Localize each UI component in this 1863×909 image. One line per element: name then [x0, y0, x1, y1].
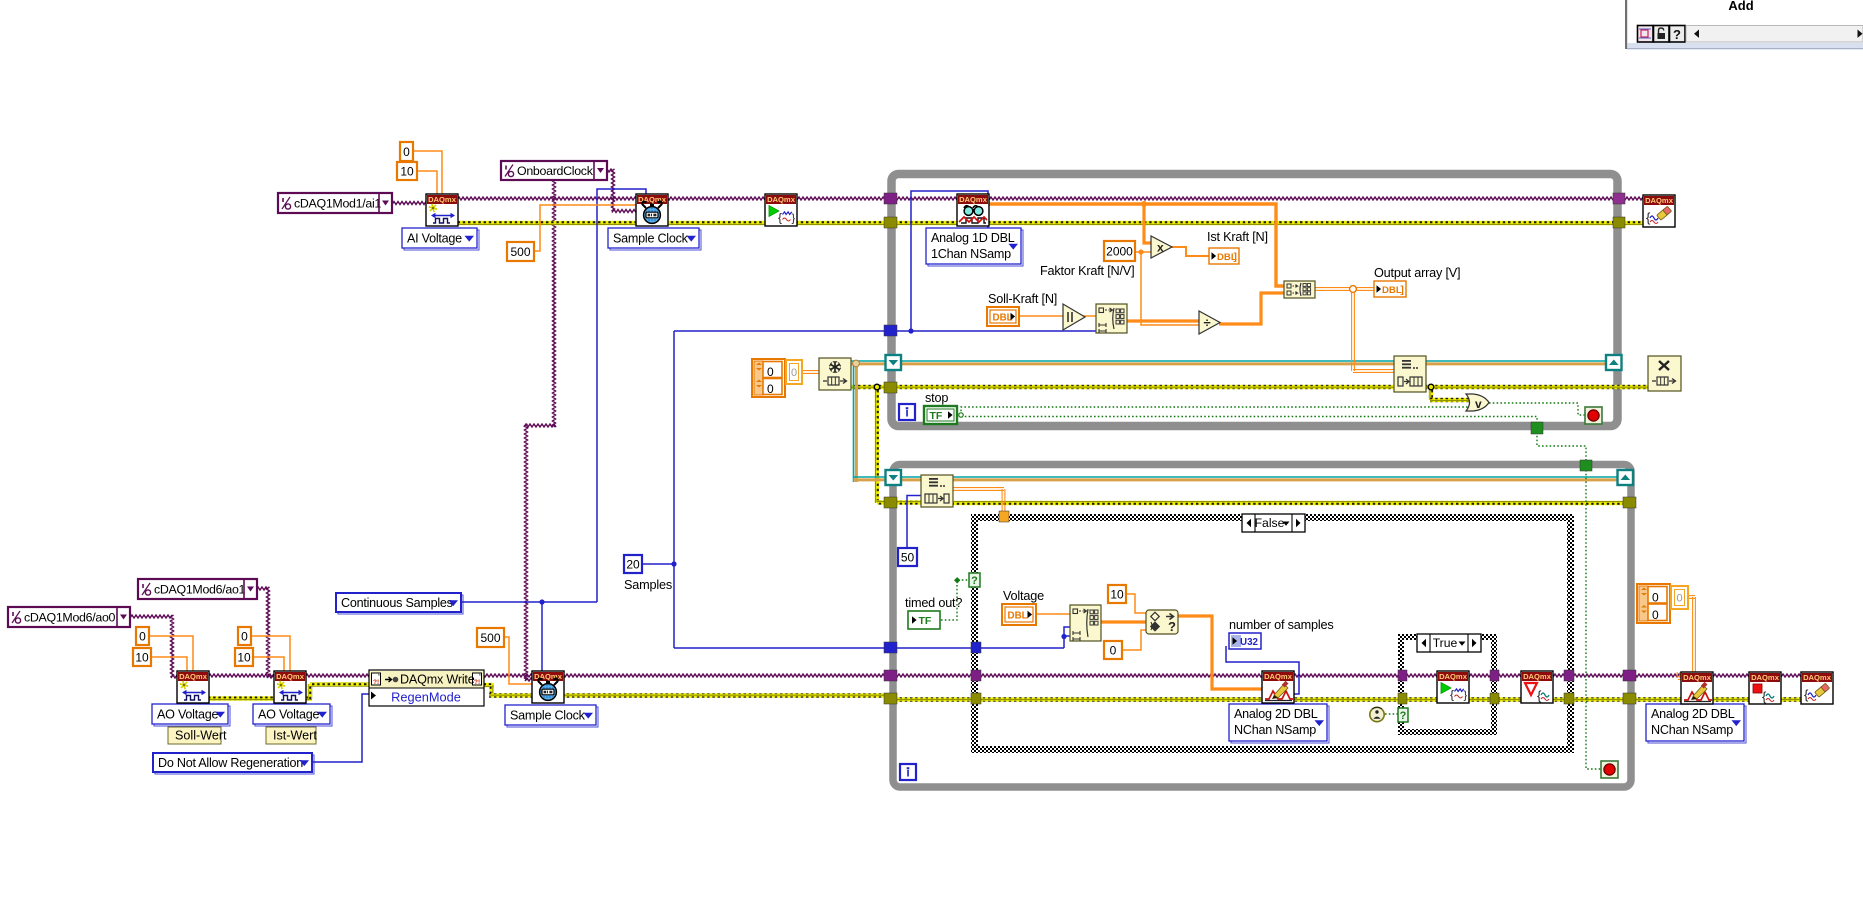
wire: read data branch to multiply — [1144, 204, 1152, 243]
indicator number of samples U32 — [1229, 633, 1261, 649]
svg-text:0: 0 — [767, 382, 774, 396]
wire: AI error cluster (yellow-black) — [457, 221, 1644, 225]
ring constant Sample Clock (AO) — [507, 707, 598, 727]
numeric constant 10 (case high limit) — [1108, 585, 1126, 603]
indicator timed out? TF — [908, 611, 940, 629]
svg-text:0: 0 — [1652, 591, 1659, 605]
svg-text:DAQmx: DAQmx — [1523, 672, 1552, 681]
svg-text:Soll-Kraft [N]: Soll-Kraft [N] — [988, 292, 1057, 306]
DAQmx Write property node RegenMode — [369, 670, 484, 706]
while loop 2 (generation loop) border — [893, 465, 1631, 788]
wire: queue refnum inside loop1 to enqueue and right shift register — [899, 360, 1620, 362]
tunnel: AO error into loop2 — [884, 693, 897, 704]
wire: queue refnum inside loop2 through dequeue — [899, 476, 1620, 478]
shift register loop2 left — [886, 470, 902, 485]
wire: obtain-queue error out to loop1 enqueue / release queue — [850, 385, 1652, 389]
tunnel: obtain-queue error into loop1 — [884, 382, 897, 393]
svg-text:}: } — [1464, 690, 1468, 702]
wire: initialize array out to select — [1100, 620, 1147, 623]
svg-text:10: 10 — [237, 650, 251, 664]
svg-text:Analog 2D DBL: Analog 2D DBL — [1651, 707, 1735, 721]
svg-text:?: ? — [971, 575, 978, 587]
svg-text:0: 0 — [1676, 593, 1682, 605]
svg-text:Sample Clock: Sample Clock — [510, 709, 586, 723]
numeric constant 10 (ao1) — [235, 648, 253, 666]
wire: AI physical channel to DAQmx Create Channel (purple) — [392, 202, 426, 205]
svg-text:Add: Add — [1728, 0, 1753, 13]
numeric constant 500 (AI rate) — [507, 242, 534, 261]
control Voltage DBL — [1002, 604, 1036, 625]
convert/units triangle (Soll-Kraft) — [1063, 304, 1085, 330]
svg-text:20: 20 — [626, 557, 640, 571]
tunnel: AO error out of loop2 — [1623, 693, 1636, 704]
element box of array constant 2 — [1671, 586, 1688, 609]
wire: First Call? to inner case selector — [1385, 713, 1399, 715]
tunnel: AI task into loop1 — [884, 193, 897, 204]
wire: error status branch into OR gate — [1429, 387, 1433, 400]
tunnel: samples count into loop1 — [884, 325, 897, 336]
loop2 iteration terminal — [900, 764, 916, 780]
wire: AO error cluster property node -> AO timing -> loop2 — [483, 683, 494, 687]
element box of array constant — [786, 360, 802, 384]
svg-text:?: ? — [1400, 710, 1407, 722]
wire: build array out 2D array to Output array indicator and enqueue — [1315, 287, 1374, 289]
svg-text:50: 50 — [901, 550, 915, 564]
shift register loop1 left — [886, 355, 902, 370]
DAQmx Timing (AO sample clock) — [532, 671, 564, 703]
inner case selector terminal ? — [1398, 708, 1408, 722]
ring constant Do Not Allow Regeneration — [155, 755, 314, 774]
wire: AO ch0 constants 0/10 — [149, 636, 193, 672]
wire: stop boolean from stop control to OR gate and loop2 (green dotted) — [952, 414, 961, 416]
svg-text:0: 0 — [1652, 608, 1659, 622]
svg-text:timed out?: timed out? — [905, 596, 962, 610]
inner case structure (True case) border — [1398, 634, 1497, 640]
shift register loop2 right — [1618, 470, 1634, 485]
wire: constant 500 to AI sample clock rate — [533, 205, 637, 251]
loop2 conditional terminal (stop sign) — [1601, 761, 1618, 778]
svg-text:NChan NSamp: NChan NSamp — [1234, 723, 1316, 737]
free label Soll-Wert — [168, 727, 221, 744]
svg-text:Analog 1D DBL: Analog 1D DBL — [931, 231, 1015, 245]
wire: number of samples written (blue) from DAQmx Write to U32 indicator — [1226, 646, 1299, 694]
svg-text:?!: ?! — [474, 679, 480, 686]
ring constant Continuous Samples — [338, 595, 463, 614]
In Range and Coerce / select — [1146, 610, 1178, 634]
wire: AO error cluster create1->create2->property node — [208, 696, 312, 700]
svg-text:OnboardClock: OnboardClock — [517, 164, 594, 178]
wire: dequeue element out to case tunnel — [952, 487, 1004, 489]
tunnel: samples count into loop2 — [884, 642, 897, 653]
svg-text:Ist-Wert: Ist-Wert — [273, 729, 317, 743]
control stop TF — [924, 406, 957, 424]
wire: Continuous Samples (blue) to AI and AO timing sample-mode inputs — [461, 601, 597, 603]
junction: error wire dots — [874, 384, 880, 390]
tunnel: AO task out of case — [1564, 670, 1574, 681]
svg-text:0: 0 — [241, 629, 248, 643]
junction: queue wire branch dot — [853, 360, 860, 367]
I/O constant cDAQ1Mod1/ai1 — [278, 193, 392, 213]
svg-text:DAQmx: DAQmx — [1439, 672, 1468, 681]
DAQmx Start Task (AI) — [765, 194, 797, 226]
svg-text:0: 0 — [1110, 643, 1117, 657]
svg-text:}: } — [792, 213, 796, 225]
tunnel: AO error inner case left — [1398, 693, 1407, 704]
context help window fragment (top right) — [1627, 0, 1863, 43]
svg-text:cDAQ1Mod1/ai1: cDAQ1Mod1/ai1 — [294, 197, 381, 211]
numeric constant 2000 Faktor Kraft — [1104, 241, 1135, 261]
wire: AO task (purple) through create channels, write node, loop 2, case, DAQmx write/start/stop/clear — [208, 674, 274, 677]
svg-text:TF: TF — [930, 410, 943, 422]
while loop 1 (acquisition loop) border — [892, 174, 1618, 426]
I/O constant cDAQ1Mod6/ao0 — [8, 607, 130, 627]
ring constant AO Voltage 2 — [255, 706, 332, 726]
svg-text:500: 500 — [510, 245, 530, 259]
svg-text:DAQmx: DAQmx — [179, 672, 208, 681]
wire: AO error cluster inside loop2 through case and DAQmx write/start/stop to clear — [889, 697, 1832, 701]
svg-text:DAQmx: DAQmx — [767, 195, 796, 204]
inner case selector label True — [1417, 634, 1481, 652]
tunnel: AI error out of loop1 — [1613, 217, 1625, 228]
case selector terminal ? — [969, 573, 980, 587]
wire: stop boolean below loop1 to loop2 tunnel — [1537, 432, 1586, 462]
svg-text:DAQmx: DAQmx — [1751, 673, 1780, 682]
wire: stop boolean inside loop2 to loop condition — [1586, 470, 1601, 769]
DAQmx Timing (AI sample clock) — [636, 194, 668, 226]
wire: divide out to build array — [1219, 293, 1285, 324]
svg-text:500: 500 — [480, 631, 500, 645]
wire: OnboardClock out — [605, 169, 613, 172]
tunnel: AO task inner case left — [1398, 670, 1407, 681]
wire: constant 500 to AO sample clock rate — [503, 637, 534, 684]
Build Array — [1284, 281, 1315, 298]
polymorphic selector Analog 1D DBL 1Chan NSamp — [928, 230, 1023, 266]
svg-text:AI Voltage: AI Voltage — [407, 232, 462, 246]
svg-text:x: x — [1157, 241, 1164, 255]
wire: constant 10 to AI create channel — [417, 171, 437, 195]
svg-text:cDAQ1Mod6/ao1: cDAQ1Mod6/ao1 — [154, 583, 246, 597]
svg-text:2000: 2000 — [1106, 244, 1133, 258]
polymorphic selector Analog 2D DBL NChan NSamp (right) — [1648, 706, 1746, 743]
tunnel: stop boolean out of loop1 bottom — [1531, 422, 1543, 434]
context help scrollbar — [1686, 26, 1863, 43]
wire: OnboardClock to AO sample clock (purple, long vertical) — [553, 179, 556, 427]
wire: constant 0 to select (loop2 case) — [1122, 630, 1147, 650]
svg-text:stop: stop — [925, 391, 948, 405]
svg-text:1Chan NSamp: 1Chan NSamp — [931, 247, 1011, 261]
context help toolbar button 1 — [1638, 26, 1654, 43]
tunnel: AO task into loop2 — [884, 670, 897, 681]
Dequeue Element — [921, 475, 953, 507]
svg-text:{: { — [1450, 688, 1454, 702]
DAQmx Stop Task (after inner case) — [1521, 671, 1553, 703]
svg-text:{: { — [778, 211, 782, 225]
svg-text:Faktor Kraft [N/V]: Faktor Kraft [N/V] — [1040, 264, 1134, 278]
svg-text:?: ? — [1673, 27, 1681, 42]
svg-text:True: True — [1433, 636, 1458, 650]
svg-text:U32: U32 — [1240, 637, 1259, 648]
svg-text:False: False — [1255, 516, 1285, 530]
I/O constant OnboardClock — [501, 161, 607, 180]
svg-text:Output array [V]: Output array [V] — [1374, 266, 1460, 280]
First Call? — [1370, 707, 1384, 721]
junction: stop boolean dot — [959, 413, 963, 417]
Release Queue — [1648, 356, 1681, 391]
numeric constant 10 (AI range) — [397, 162, 417, 180]
svg-text:RegenMode: RegenMode — [391, 690, 461, 705]
svg-text:TF: TF — [919, 615, 932, 627]
wire: Soll-Kraft to converter and initialize array — [1019, 315, 1064, 317]
svg-text:DAQmx: DAQmx — [959, 195, 988, 204]
svg-text:cDAQ1Mod6/ao0: cDAQ1Mod6/ao0 — [24, 611, 116, 625]
svg-text:Analog 2D DBL: Analog 2D DBL — [1234, 707, 1318, 721]
svg-text:10: 10 — [1110, 587, 1124, 601]
DAQmx Clear Task (right) — [1801, 672, 1833, 704]
wire: queue refnum branch down to loop2 — [853, 363, 855, 482]
svg-text:Soll-Wert: Soll-Wert — [175, 729, 227, 743]
svg-text:DAQmx: DAQmx — [276, 672, 305, 681]
control Soll-Kraft [N] DBL — [987, 307, 1019, 326]
Enqueue Element — [1394, 356, 1426, 392]
svg-text:DAQmx: DAQmx — [1264, 672, 1293, 681]
wire: Voltage control to initialize array (loop2) — [1034, 613, 1071, 615]
numeric constant 10 (ao0) — [133, 648, 151, 666]
ring constant AI Voltage — [404, 230, 479, 250]
DAQmx Read — [957, 194, 989, 226]
DAQmx Create Virtual Channel (AO ch0) — [177, 671, 209, 703]
wire: constant 0 to AI create channel — [413, 151, 442, 195]
tunnel: AO task inner case right — [1490, 670, 1499, 681]
svg-text:]: ] — [1234, 252, 1237, 263]
DAQmx Create Virtual Channel (AI) — [426, 194, 458, 226]
svg-text:v: v — [1475, 397, 1482, 411]
numeric constant 50 timeout (blue) — [898, 548, 917, 566]
svg-text:Sample Clock: Sample Clock — [613, 232, 689, 246]
Initialize Array (loop2 case) — [1070, 605, 1101, 641]
wire: constant 2000 to multiply and divide — [1134, 251, 1152, 253]
svg-text:{: { — [1537, 688, 1542, 703]
wire: array constant 2 to DAQmx Write (right) — [1692, 597, 1694, 678]
wire: select out to DAQmx Write data input — [1177, 616, 1263, 689]
wire: queue refnum obtain->loop1 shift register — [850, 360, 890, 362]
ring constant AO Voltage 1 — [154, 706, 230, 726]
numeric constant 0 (AI range) — [400, 142, 413, 161]
DAQmx Stop Task (right) — [1749, 672, 1781, 704]
svg-text:Voltage: Voltage — [1003, 589, 1044, 603]
I/O constant cDAQ1Mod6/ao1 — [138, 579, 257, 599]
tunnel: AO error inner case right — [1490, 693, 1499, 704]
tunnel: AO error into case — [971, 693, 981, 704]
svg-text:DBL: DBL — [1008, 611, 1028, 622]
svg-text:DBL: DBL — [1382, 285, 1402, 296]
array constant 2 (write default data) — [1637, 584, 1670, 623]
wire: multiply out to Ist Kraft indicator — [1172, 247, 1209, 256]
wire: initialize array out to divide — [1125, 319, 1200, 322]
svg-text:]: ] — [1401, 285, 1404, 296]
loop1 conditional terminal (stop sign) — [1585, 407, 1602, 424]
OR gate — [1466, 394, 1489, 411]
tunnel: dequeue element into case top — [999, 511, 1009, 522]
Obtain Queue — [819, 358, 851, 390]
svg-text:DAQmx: DAQmx — [1803, 673, 1832, 682]
wire: 50 timeout (blue) to dequeue — [907, 496, 922, 550]
case selector label False — [1242, 514, 1305, 532]
multiply function — [1151, 236, 1172, 258]
numeric constant 500 (AO rate) — [477, 628, 504, 647]
array constant (queue element prototype) — [752, 359, 785, 397]
svg-text:DAQmx: DAQmx — [428, 195, 457, 204]
svg-text:÷: ÷ — [1204, 315, 1211, 330]
wire: constant 10 to select (loop2 case) — [1126, 594, 1147, 613]
ring constant Sample Clock (AI) — [610, 230, 701, 250]
shift register loop1 right — [1606, 355, 1622, 370]
tunnel: AI error into loop1 — [884, 217, 897, 228]
tunnel: dequeue error into loop2 — [884, 497, 897, 508]
DAQmx Write (right of loop2) — [1681, 672, 1713, 704]
loop1 iteration terminal — [899, 404, 915, 420]
context help toolbar button 3 (?) — [1670, 26, 1686, 43]
numeric constant 20 Samples (blue) — [624, 555, 642, 573]
svg-text:AO Voltage: AO Voltage — [157, 708, 218, 722]
tunnel: dequeue error out of loop2 — [1623, 497, 1636, 508]
tunnel: AO error out of case — [1564, 693, 1574, 704]
wire: AO ch1 constants 0/10 — [251, 636, 290, 672]
svg-text:number of samples: number of samples — [1229, 618, 1334, 632]
case structure (False case) border — [971, 514, 1574, 521]
numeric constant 0 (ao1) — [238, 627, 251, 645]
svg-text:Ist Kraft [N]: Ist Kraft [N] — [1207, 230, 1268, 244]
polymorphic selector Analog 2D DBL NChan NSamp (case) — [1231, 706, 1329, 743]
wire: AO physical channel ao0 (purple) — [130, 615, 172, 618]
free label Ist-Wert — [266, 727, 316, 744]
svg-text:{: { — [1762, 689, 1767, 704]
svg-text:AO Voltage: AO Voltage — [258, 708, 319, 722]
DAQmx Clear Task (AI) — [1643, 195, 1675, 227]
svg-text:10: 10 — [135, 650, 149, 664]
wire: read data (1D array, thick orange) — [988, 204, 1285, 286]
DAQmx Start Task (inner case) — [1437, 671, 1469, 703]
svg-text:DAQmx Write: DAQmx Write — [400, 673, 475, 687]
wire: dequeue timed-out to indicator and case selector — [941, 580, 969, 620]
wire: error branch down to loop2 dequeue — [875, 387, 879, 503]
svg-text:Do Not Allow Regeneration: Do Not Allow Regeneration — [158, 756, 303, 770]
DAQmx Write (in case) — [1262, 671, 1294, 703]
svg-text:10: 10 — [400, 164, 414, 178]
svg-text:DBL: DBL — [993, 313, 1013, 324]
numeric constant 0 (case low limit) — [1104, 641, 1122, 659]
tunnel: AO task into case — [971, 670, 981, 681]
indicator Ist Kraft [N] DBL — [1209, 248, 1239, 264]
indicator Output array [V] DBL — [1374, 281, 1406, 297]
svg-text:0: 0 — [139, 629, 146, 643]
tunnel: AI task out of loop1 — [1613, 193, 1625, 204]
svg-text:0: 0 — [791, 367, 797, 379]
svg-text:NChan NSamp: NChan NSamp — [1651, 723, 1733, 737]
svg-text:0: 0 — [767, 365, 774, 379]
numeric constant 0 (ao0) — [136, 627, 149, 645]
Initialize Array (loop1) — [1096, 304, 1127, 333]
wire: OR gate output to loop1 condition terminal — [1489, 403, 1586, 415]
wire: 20 Samples (blue) to loop1, read count and initialize-array — [641, 563, 674, 565]
svg-text:DAQmx: DAQmx — [1683, 673, 1712, 682]
wire: dequeue error out to loop2 edge — [952, 501, 1632, 505]
wire: 20 Samples to loop2 initialize-array — [674, 647, 1064, 649]
wire: Do Not Allow Regeneration (blue) to RegenMode property — [312, 694, 370, 762]
svg-text:DAQmx: DAQmx — [1645, 196, 1674, 205]
svg-text:Samples: Samples — [624, 578, 672, 592]
tunnel: AO task out of loop2 — [1623, 670, 1636, 681]
wire: array constant element to obtain queue — [801, 370, 820, 372]
tunnel: samples count into case — [971, 642, 981, 653]
svg-text:0: 0 — [403, 145, 410, 159]
wire: AO physical channel ao1 (purple) — [256, 587, 268, 590]
wire: AI task (purple) create->timing->start->read->clear — [457, 197, 1643, 200]
context help toolbar button 2 (lock) — [1654, 26, 1670, 43]
svg-text:?!: ?! — [373, 679, 379, 686]
svg-text:?: ? — [1168, 619, 1176, 634]
tunnel: stop boolean into loop2 top — [1580, 460, 1592, 471]
svg-text:Continuous Samples: Continuous Samples — [341, 596, 453, 610]
DAQmx Create Virtual Channel (AO ch1) — [274, 671, 306, 703]
divide function — [1199, 311, 1220, 334]
